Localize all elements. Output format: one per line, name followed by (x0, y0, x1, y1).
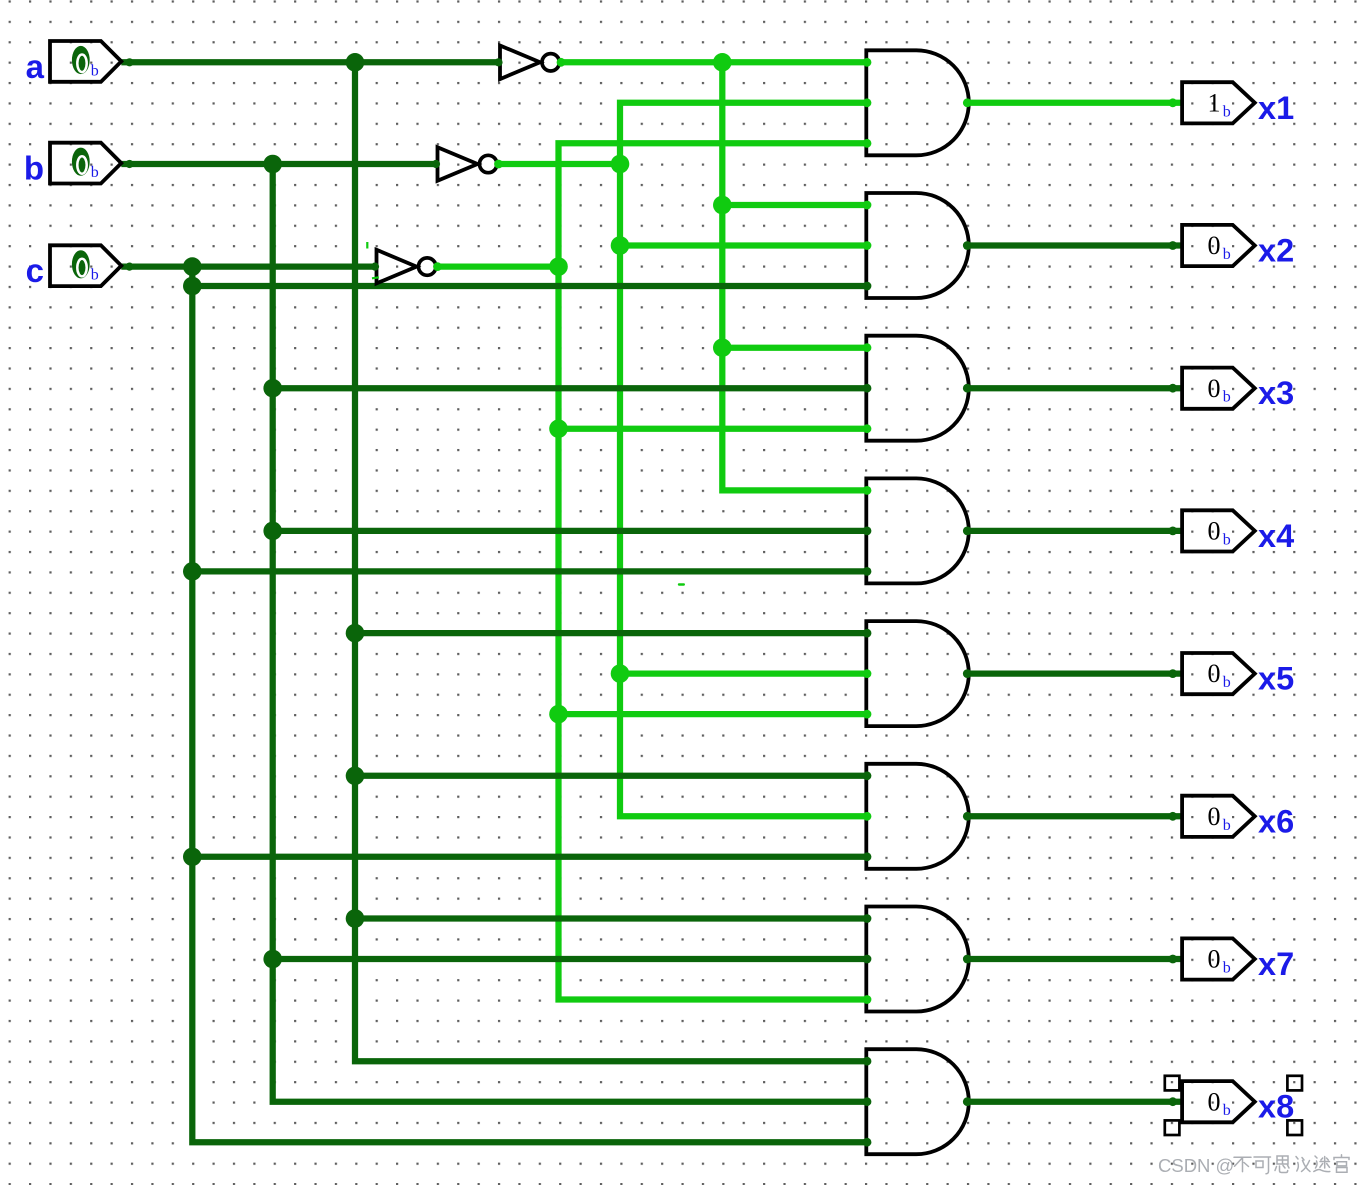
wire G8 output to pin x8 (968, 1099, 1182, 1105)
pin dot G1 in3 (863, 139, 872, 148)
junction b to G7 in2 (263, 950, 282, 969)
pin dot x2 (1168, 241, 1177, 250)
junction not-c to G5 in3 (549, 705, 568, 724)
pin dot G1 in2 (863, 98, 872, 107)
junction c to G4 in3 (183, 562, 202, 581)
AND gate G3 (866, 336, 969, 441)
pin dot G7 in1 (863, 914, 872, 923)
pin dot NOT U3 in (371, 263, 379, 271)
pin dot G6 in2 (863, 812, 872, 821)
pin dot x4 (1168, 527, 1177, 536)
pin dot G2 in3 (863, 282, 872, 291)
pin dot G8 in2 (863, 1097, 872, 1106)
pin dot G6 in3 (863, 852, 872, 861)
output pin x8 (1182, 1081, 1294, 1125)
AND gate G2 (866, 193, 969, 298)
pin dot a (125, 58, 133, 66)
pin dot G5 in2 (863, 669, 872, 678)
wire b from pin to NOT U2 (121, 161, 437, 167)
AND gate G4 (866, 478, 969, 583)
svg-text:b: b (91, 62, 99, 79)
junction b to G4 in2 (263, 522, 282, 541)
pin dot G2 in1 (863, 201, 872, 210)
pin dot b (125, 160, 133, 168)
pin dot G3 in2 (863, 384, 872, 393)
wire G2 output to pin x2 (968, 242, 1182, 248)
output pin x5 (1182, 653, 1294, 697)
svg-text:x5: x5 (1258, 661, 1294, 697)
pin dot G8 in3 (863, 1138, 872, 1147)
stray green tick near NOT U3 (366, 242, 368, 249)
svg-text:x2: x2 (1258, 233, 1294, 269)
pin dot NOT U2 out (494, 160, 503, 169)
junction not-a to G2 in1 (713, 196, 732, 215)
junction c to G2 in3 (183, 277, 202, 296)
selection handle 2 of pin x8 (1287, 1076, 1302, 1091)
AND gate G6 (866, 764, 969, 869)
svg-text:b: b (1223, 389, 1231, 406)
svg-text:CSDN @: CSDN @ (1158, 1155, 1234, 1176)
wire b branch to G3 in2 (273, 385, 868, 391)
junction b to G3 in2 (263, 379, 282, 398)
wire b branch to G4 in2 (273, 528, 868, 534)
svg-text:b: b (91, 164, 99, 181)
wire a from pin to NOT U1 (121, 59, 500, 65)
input pin a (26, 41, 122, 85)
svg-text:x7: x7 (1258, 946, 1294, 982)
selection handle 4 of pin x8 (1287, 1120, 1302, 1135)
wire trunk not-c vertical G1 in3 to G7 in3 (559, 143, 869, 999)
wire not-a branch to G2 in1 (722, 202, 868, 208)
pin dot G3 in3 (863, 424, 872, 433)
wire not-b branch to G2 in2 (620, 242, 868, 248)
pin dot NOT U3 out (433, 262, 442, 271)
input pin b (24, 143, 121, 187)
selection handle 3 of pin x8 (1165, 1120, 1180, 1135)
stray green tick below NOT U3 (372, 276, 379, 279)
output pin x3 (1182, 368, 1294, 412)
pin dot G7 in3 (863, 995, 872, 1004)
pin dot x6 (1168, 812, 1177, 821)
wire trunk c vertical to G8 in3 (192, 267, 868, 1143)
wire G4 output to pin x4 (968, 528, 1182, 534)
junction a trunk (346, 53, 365, 72)
wire not-c branch to G5 in3 (559, 711, 869, 717)
wire NOT-b output (499, 161, 621, 167)
pin dot G1 in1 (863, 58, 872, 67)
junction a to G6 in1 (346, 767, 365, 786)
pin dot G5 in1 (863, 629, 872, 638)
junction not-c to G3 in3 (549, 419, 568, 438)
wire not-c branch to G3 in3 (559, 426, 869, 432)
pin dot G3 out (963, 384, 972, 393)
wire a branch to G5 in1 (355, 630, 868, 636)
pin dot G2 in2 (863, 241, 872, 250)
pin dot x8 (1168, 1097, 1177, 1106)
svg-text:0: 0 (1208, 945, 1221, 974)
watermark CJK characters (1234, 1155, 1349, 1174)
svg-text:0: 0 (1208, 374, 1221, 403)
input pin c (26, 245, 122, 289)
pin dot G7 in2 (863, 955, 872, 964)
svg-text:b: b (1223, 960, 1231, 977)
svg-text:0: 0 (1208, 802, 1221, 831)
wire NOT-a output to G1 in1 (561, 59, 868, 65)
pin dot G2 out (963, 241, 972, 250)
pin dot x3 (1168, 384, 1177, 393)
wire c branch to G4 in3 (192, 568, 868, 574)
svg-text:x4: x4 (1258, 518, 1294, 554)
wire G3 output to pin x3 (968, 385, 1182, 391)
svg-text:1: 1 (1208, 88, 1221, 117)
wire not-a branch to G3 in1 (722, 345, 868, 351)
output pin x2 (1182, 225, 1294, 269)
NOT gate U2 (b) (438, 147, 497, 181)
wire trunk b vertical to G8 in2 (273, 164, 868, 1102)
svg-text:0: 0 (1208, 659, 1221, 688)
wire a branch to G7 in1 (355, 915, 868, 921)
wire G5 output to pin x5 (968, 670, 1182, 676)
junction b trunk (263, 155, 282, 174)
svg-text:0: 0 (1208, 231, 1221, 260)
junction not-b to G5 in2 (611, 664, 630, 683)
junction c trunk (183, 257, 202, 276)
NOT gate U3 (c) (377, 250, 436, 284)
wire b branch to G7 in2 (273, 956, 868, 962)
svg-text:b: b (1223, 674, 1231, 691)
pin dot G4 out (963, 527, 972, 536)
svg-text:x6: x6 (1258, 803, 1294, 839)
svg-text:a: a (26, 48, 45, 85)
output pin x4 (1182, 510, 1294, 554)
wire c branch to G6 in3 (192, 854, 868, 860)
junction not-a trunk (713, 53, 732, 72)
stray green dash near G4 (678, 583, 685, 585)
output pin x1 (1182, 82, 1294, 126)
pin dot G4 in2 (863, 527, 872, 536)
wire not-b branch to G5 in2 (620, 670, 868, 676)
svg-text:b: b (1223, 103, 1231, 120)
wire trunk a vertical to G8 in1 (355, 62, 868, 1061)
pin dot G8 in1 (863, 1057, 872, 1066)
selection handle 1 of pin x8 (1165, 1076, 1180, 1091)
pin dot G7 out (963, 955, 972, 964)
AND gate G5 (866, 621, 969, 726)
junction a to G7 in1 (346, 909, 365, 928)
pin dot G4 in3 (863, 567, 872, 576)
junction not-b to G2 in2 (611, 236, 630, 255)
pin dot G3 in1 (863, 343, 872, 352)
junction not-c out (549, 257, 568, 276)
svg-text:b: b (1223, 531, 1231, 548)
pin dot G6 in1 (863, 771, 872, 780)
junction c to G6 in3 (183, 848, 202, 867)
AND gate G7 (866, 907, 969, 1012)
pin dot G1 out (963, 98, 972, 107)
wire trunk not-a vertical to G4 in1 (722, 62, 868, 490)
svg-text:x1: x1 (1258, 90, 1294, 126)
svg-text:b: b (1223, 246, 1231, 263)
AND gate G8 (866, 1049, 969, 1154)
wire c branch to G2 in3 (192, 283, 868, 289)
output pin x7 (1182, 938, 1294, 982)
wire c from pin to NOT U3 (121, 263, 376, 269)
svg-text:b: b (91, 267, 99, 284)
svg-text:c: c (26, 252, 44, 289)
output pin x6 (1182, 796, 1294, 840)
wire a branch to G6 in1 (355, 773, 868, 779)
svg-text:x3: x3 (1258, 375, 1294, 411)
junction not-a to G3 in1 (713, 338, 732, 357)
pin dot NOT U1 in (494, 58, 502, 66)
AND gate G1 (866, 50, 969, 155)
pin dot c (125, 263, 133, 271)
pin dot G8 out (963, 1097, 972, 1106)
junction a to G5 in1 (346, 624, 365, 643)
wire G1 output to pin x1 (968, 100, 1182, 106)
pin dot x5 (1168, 669, 1177, 678)
wire G7 output to pin x7 (968, 956, 1182, 962)
junction not-b out (611, 155, 630, 174)
pin dot NOT U2 in (432, 160, 440, 168)
pin dot G5 in3 (863, 710, 872, 719)
wire NOT-c output (438, 263, 559, 269)
svg-text:b: b (1223, 817, 1231, 834)
svg-text:b: b (1223, 1102, 1231, 1119)
pin dot NOT U1 out (557, 58, 566, 67)
svg-text:b: b (24, 150, 44, 187)
svg-text:0: 0 (1208, 517, 1221, 546)
NOT gate U1 (a) (500, 46, 559, 80)
pin dot G5 out (963, 669, 972, 678)
svg-text:0: 0 (1208, 1087, 1221, 1116)
pin dot G6 out (963, 812, 972, 821)
pin dot G4 in1 (863, 486, 872, 495)
pin dot x1 (1168, 98, 1177, 107)
wire G6 output to pin x6 (968, 813, 1182, 819)
pin dot x7 (1168, 955, 1177, 964)
wire trunk not-b vertical G1 in2 to G6 in2 (620, 103, 868, 817)
